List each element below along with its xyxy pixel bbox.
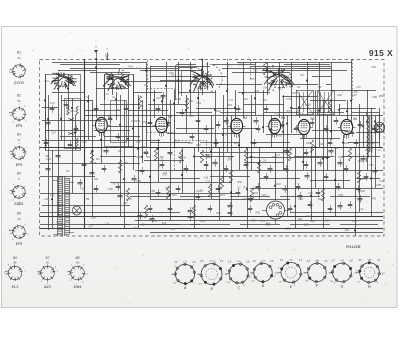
svg-text:EAB1: EAB1	[14, 202, 23, 206]
coil box L2	[105, 75, 134, 147]
coil box L2 inner	[111, 101, 127, 143]
wire	[112, 74, 114, 95]
svg-text:R17: R17	[262, 193, 267, 197]
wire	[190, 224, 230, 226]
resistor R3	[200, 150, 203, 163]
wire	[211, 115, 213, 199]
wire	[52, 92, 84, 94]
capacitor C1	[46, 122, 51, 124]
wire	[303, 135, 305, 170]
IF transformer S3 ticks	[320, 92, 322, 112]
wire	[167, 133, 237, 135]
wire	[356, 132, 380, 134]
wire	[207, 62, 209, 90]
wire	[282, 96, 318, 98]
wire	[130, 196, 170, 198]
speaker LS	[374, 122, 384, 132]
svg-text:R52: R52	[372, 66, 377, 69]
wire	[88, 95, 90, 140]
svg-text:R47: R47	[354, 91, 359, 94]
resistor R1	[185, 98, 188, 111]
wire	[348, 142, 380, 144]
junction	[262, 126, 264, 128]
svg-text:C74: C74	[171, 74, 176, 77]
junction	[326, 157, 328, 159]
wire	[359, 104, 361, 212]
capacitor C86	[344, 168, 349, 170]
wire	[352, 112, 380, 114]
wire	[222, 68, 310, 70]
svg-text:R15: R15	[162, 222, 167, 225]
wire	[379, 108, 381, 147]
oscillator coil shield 2	[179, 68, 198, 105]
svg-text:C76: C76	[286, 97, 291, 101]
junction	[214, 109, 216, 111]
resistor R15	[208, 184, 211, 197]
wire	[48, 95, 50, 230]
svg-text:R24: R24	[62, 84, 67, 87]
wire	[300, 68, 331, 70]
wire	[327, 115, 329, 170]
svg-text:C67: C67	[91, 217, 96, 220]
wire	[128, 74, 130, 147]
svg-text:B2: B2	[168, 115, 172, 119]
svg-text:R80: R80	[379, 95, 384, 98]
resistor R18	[118, 160, 121, 173]
antenna terminal	[96, 50, 98, 59]
capacitor C88	[94, 188, 99, 190]
capacitor C104	[228, 212, 233, 214]
svg-text:C34: C34	[51, 132, 56, 135]
svg-text:C47: C47	[50, 101, 55, 105]
capacitor C103	[208, 208, 213, 210]
oscillator coil shield	[176, 65, 197, 101]
resistor R6	[263, 62, 266, 75]
resistor Rb	[76, 106, 78, 115]
junction	[119, 124, 121, 126]
svg-text:R5: R5	[128, 197, 132, 201]
svg-text:C93: C93	[338, 193, 343, 197]
capacitor C6	[118, 195, 123, 197]
wire	[330, 90, 376, 92]
wire	[85, 115, 383, 117]
junction	[115, 98, 117, 100]
svg-text:C90: C90	[337, 93, 342, 97]
svg-text:R75: R75	[250, 78, 255, 81]
svg-text:C81: C81	[275, 113, 280, 116]
wire	[128, 110, 168, 112]
capacitor C54	[256, 128, 261, 130]
capacitor C7	[138, 215, 143, 217]
junction	[242, 92, 244, 94]
tube B4 (EAB1)	[269, 118, 281, 133]
junction	[91, 150, 93, 152]
wire	[92, 100, 94, 216]
junction	[374, 120, 376, 122]
wire	[315, 90, 317, 188]
wire	[290, 212, 383, 214]
tuning gang cluster	[193, 74, 198, 77]
svg-text:C22: C22	[306, 215, 311, 218]
capacitor C40	[50, 108, 55, 110]
svg-text:B4: B4	[281, 116, 285, 120]
junction	[274, 185, 276, 187]
resistor R16	[250, 188, 253, 201]
wire	[307, 62, 309, 115]
svg-text:EF9: EF9	[16, 124, 23, 128]
capacitor C69	[214, 142, 219, 144]
wire	[246, 157, 330, 159]
wire	[116, 92, 118, 120]
junction	[47, 118, 49, 120]
wire	[140, 224, 180, 226]
svg-text:R39: R39	[251, 219, 256, 222]
wire	[292, 108, 332, 110]
svg-text:R21: R21	[117, 109, 122, 112]
svg-text:C56: C56	[345, 132, 350, 135]
wire	[279, 62, 281, 118]
wire	[150, 66, 152, 199]
junction	[338, 109, 340, 111]
wire	[347, 100, 349, 119]
IF transformer S3 box	[318, 91, 335, 115]
wire	[250, 66, 331, 68]
capacitor C95	[256, 186, 261, 188]
svg-text:C99: C99	[372, 95, 377, 99]
capacitor C80	[224, 168, 229, 170]
junction	[177, 79, 179, 81]
capacitor C30	[161, 95, 166, 97]
svg-text:C16: C16	[105, 223, 110, 226]
svg-text:C18: C18	[163, 172, 168, 175]
wire	[176, 112, 212, 114]
junction	[246, 188, 248, 190]
capacitor C2	[46, 168, 51, 170]
junction	[173, 103, 175, 105]
svg-text:R64: R64	[244, 187, 249, 190]
trimmer C2	[68, 132, 74, 135]
wire	[311, 147, 313, 220]
capacitor C70	[252, 142, 257, 144]
svg-text:C24: C24	[141, 224, 146, 227]
capacitor C8	[150, 218, 155, 220]
wire	[196, 108, 236, 110]
wire	[284, 64, 330, 66]
svg-text:G: G	[341, 284, 344, 288]
svg-text:R45: R45	[298, 218, 303, 221]
capacitor C64	[44, 142, 49, 144]
wire	[42, 205, 130, 207]
svg-text:C49: C49	[82, 141, 87, 144]
junction	[51, 198, 53, 200]
wire	[110, 182, 150, 184]
scan speckle	[255, 37, 258, 40]
capacitor C18	[338, 162, 343, 164]
wire	[232, 72, 290, 74]
svg-text:R45: R45	[141, 146, 146, 149]
junction	[103, 85, 105, 87]
junction	[310, 195, 312, 197]
junction	[342, 142, 344, 144]
junction	[74, 132, 76, 134]
wire	[45, 74, 47, 150]
svg-text:R20: R20	[316, 155, 321, 159]
svg-text:R78: R78	[286, 110, 291, 113]
capacitor C77	[160, 164, 165, 166]
junction	[302, 161, 304, 163]
wire	[178, 92, 215, 94]
capacitor C109	[348, 204, 353, 206]
resistor R2	[179, 150, 182, 163]
junction	[161, 100, 163, 102]
wire	[84, 110, 120, 112]
svg-text:R37: R37	[325, 220, 330, 223]
capacitor C21	[104, 150, 109, 152]
wire	[342, 156, 380, 158]
wire	[202, 59, 204, 64]
svg-text:EF6: EF6	[16, 242, 23, 246]
capacitor C71	[304, 152, 309, 154]
svg-text:B1: B1	[17, 51, 21, 55]
svg-text:C81: C81	[171, 228, 176, 231]
wire	[250, 142, 290, 144]
tube B5 (EF6)	[298, 119, 310, 134]
svg-text:R39: R39	[360, 178, 365, 181]
svg-text:C62: C62	[188, 141, 193, 145]
svg-text:R62: R62	[196, 144, 201, 147]
capacitor C29	[373, 170, 378, 172]
resistor R14	[166, 186, 169, 199]
svg-text:C80: C80	[296, 155, 301, 159]
junction	[44, 99, 46, 101]
capacitor C75	[102, 168, 107, 170]
wire	[267, 62, 269, 95]
wire	[148, 104, 188, 106]
svg-text:R59: R59	[124, 162, 129, 165]
svg-text:R10: R10	[216, 109, 221, 113]
socket diagram C	[229, 264, 248, 283]
wire	[287, 115, 289, 216]
junction	[318, 110, 320, 112]
capacitor C49	[180, 112, 185, 114]
wire	[42, 140, 160, 142]
svg-text:R31: R31	[334, 147, 339, 150]
resistor R7	[310, 140, 313, 153]
wire	[202, 60, 204, 68]
svg-text:EL3: EL3	[12, 285, 20, 289]
svg-text:R14: R14	[175, 140, 180, 143]
tube B6 (EL3)	[341, 119, 353, 134]
capacitor C43	[94, 108, 99, 110]
svg-text:R22: R22	[276, 183, 281, 186]
wire	[351, 60, 353, 125]
wire	[299, 95, 301, 118]
resistor R10	[138, 96, 141, 109]
wire	[280, 196, 320, 198]
svg-text:R43: R43	[205, 154, 210, 157]
wire	[60, 136, 96, 138]
wire	[260, 178, 300, 180]
svg-text:C12: C12	[359, 208, 364, 211]
svg-text:B3: B3	[243, 116, 247, 120]
wire	[75, 115, 77, 150]
resistor R21	[357, 170, 360, 183]
svg-text:C38: C38	[266, 223, 271, 226]
svg-text:C58: C58	[150, 189, 155, 193]
svg-text:C71: C71	[242, 197, 247, 201]
capacitor C87	[364, 176, 369, 178]
junction	[181, 174, 183, 176]
wire	[58, 74, 60, 216]
wire	[138, 126, 166, 128]
junction	[314, 146, 316, 148]
svg-text:C40: C40	[44, 197, 49, 201]
wire	[271, 115, 273, 147]
capacitor C41	[64, 104, 69, 106]
wire	[247, 147, 249, 228]
resistor R17	[90, 150, 93, 163]
wire	[222, 128, 258, 130]
wire	[104, 136, 140, 138]
wire	[223, 95, 225, 182]
wire	[283, 95, 285, 170]
wire	[40, 147, 383, 149]
wire	[300, 138, 340, 140]
wire	[266, 134, 302, 136]
wire	[237, 62, 352, 64]
wire	[227, 59, 229, 95]
wire	[90, 224, 130, 226]
wire	[243, 62, 245, 118]
capacitor C60	[334, 120, 339, 122]
tube B2 (EF9)	[156, 117, 168, 132]
wire	[61, 95, 63, 140]
junction	[294, 205, 296, 207]
svg-text:C85: C85	[253, 69, 258, 72]
wire	[101, 133, 103, 163]
wire	[46, 130, 84, 132]
schematic dashed border	[40, 60, 385, 237]
capacitor C91	[176, 188, 181, 190]
capacitor C27	[329, 150, 334, 152]
wire	[150, 142, 190, 144]
wire	[227, 62, 229, 152]
wire	[244, 104, 284, 106]
wire	[339, 104, 341, 115]
svg-text:C44: C44	[159, 165, 164, 168]
wire	[238, 92, 270, 94]
wire	[294, 156, 334, 158]
wire	[150, 66, 210, 68]
junction	[238, 144, 240, 146]
resistor R24	[257, 160, 260, 173]
wire	[140, 182, 232, 184]
capacitor C93	[216, 188, 221, 190]
svg-text:C64: C64	[263, 87, 268, 90]
wire	[340, 108, 376, 110]
svg-text:C92: C92	[327, 99, 332, 102]
svg-text:C55: C55	[136, 155, 141, 159]
wire	[263, 90, 265, 133]
resistor R19	[229, 170, 232, 183]
HT bus	[84, 59, 86, 228]
svg-text:C42: C42	[44, 80, 49, 83]
resistor R11	[288, 148, 291, 161]
svg-text:C15: C15	[136, 141, 141, 144]
capacitor C56	[280, 124, 285, 126]
wire	[367, 90, 369, 170]
wire	[194, 156, 234, 158]
wire	[72, 98, 74, 193]
svg-text:C84: C84	[306, 141, 311, 145]
wire	[312, 130, 348, 132]
wire	[58, 70, 96, 72]
junction	[370, 178, 372, 180]
capacitor C82	[264, 176, 269, 178]
svg-text:C27: C27	[88, 225, 93, 228]
socket diagram A	[175, 264, 194, 283]
svg-text:R21: R21	[318, 197, 323, 201]
socket diagram E	[281, 263, 301, 283]
junction	[222, 134, 224, 136]
svg-text:S3: S3	[318, 85, 322, 89]
wire	[275, 152, 277, 200]
wire	[100, 156, 136, 158]
junction	[278, 73, 280, 75]
capacitor C47	[156, 108, 161, 110]
capacitor C99	[356, 188, 361, 190]
capacitor C15	[283, 188, 288, 190]
svg-text:S4: S4	[66, 169, 70, 173]
svg-text:C91: C91	[238, 64, 243, 67]
tube B3 (EF9)	[231, 118, 243, 133]
heater rail	[40, 216, 383, 218]
junction	[185, 109, 187, 111]
svg-text:B7: B7	[46, 256, 50, 260]
junction	[378, 125, 380, 127]
resistor R4	[220, 176, 223, 189]
wire	[262, 70, 347, 72]
svg-text:R15: R15	[234, 141, 239, 145]
wire	[138, 95, 140, 228]
earth terminal	[107, 52, 109, 59]
capacitor C96	[296, 186, 301, 188]
wire	[178, 62, 180, 95]
svg-text:915 X: 915 X	[369, 48, 393, 58]
capacitor C66	[116, 136, 121, 138]
wire	[251, 95, 253, 170]
output transformer T2	[367, 116, 369, 158]
capacitor C83	[284, 168, 289, 170]
svg-text:R85: R85	[369, 164, 374, 167]
wire	[90, 72, 130, 74]
junction	[132, 128, 134, 130]
wire	[240, 224, 280, 226]
svg-text:R62: R62	[189, 100, 194, 103]
capacitor C50	[196, 120, 201, 122]
resistor R5	[244, 148, 247, 161]
wire	[160, 80, 196, 82]
wire	[371, 108, 373, 216]
wire	[219, 147, 221, 220]
wire	[244, 162, 284, 164]
capacitor C14	[268, 168, 273, 170]
svg-text:C54: C54	[143, 121, 148, 124]
svg-text:C77: C77	[371, 126, 376, 129]
resistor R12	[348, 148, 351, 161]
svg-text:C27: C27	[56, 221, 61, 224]
wire	[220, 112, 256, 114]
